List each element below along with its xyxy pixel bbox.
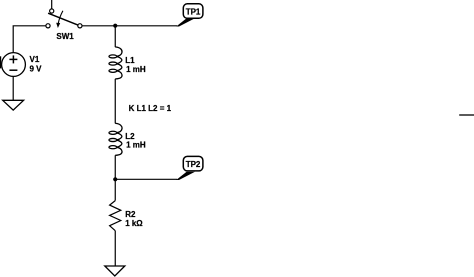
test point TP1 pointer wedge xyxy=(176,18,195,26)
switch SW1 top terminal circle xyxy=(50,9,54,13)
svg-text:R2: R2 xyxy=(125,210,136,219)
switch SW1 left terminal circle xyxy=(46,24,50,28)
wire L2 bottom to junction xyxy=(114,155,116,179)
junction node at TP2 tap xyxy=(113,177,117,181)
svg-text:1 kΩ: 1 kΩ xyxy=(125,219,143,228)
wire from SW1 right terminal to TP1 pointer xyxy=(82,25,177,27)
V1 plus sign xyxy=(9,58,17,60)
test point TP2 pointer wedge xyxy=(176,172,195,180)
wire L1 bottom to L2 top xyxy=(114,79,116,124)
test point TP2 flag xyxy=(183,156,203,171)
cropped wire stub at right edge xyxy=(459,114,474,116)
wire from V1 bottom to ground xyxy=(12,76,14,100)
voltage source V1 circle xyxy=(2,53,26,77)
wire junction to L1 top xyxy=(114,26,116,47)
svg-text:TP2: TP2 xyxy=(186,160,201,169)
svg-text:1 mH: 1 mH xyxy=(126,141,146,150)
svg-text:SW1: SW1 xyxy=(56,32,74,41)
ground under R2 xyxy=(105,266,125,276)
svg-text:1 mH: 1 mH xyxy=(126,65,146,74)
switch SW1 actuation arrow xyxy=(58,11,63,24)
wire junction to R2 top xyxy=(114,179,116,200)
ground under V1 xyxy=(3,100,24,110)
cropped element edge at left border xyxy=(0,56,1,68)
wire top feed into switch xyxy=(51,0,53,9)
V1 minus sign xyxy=(9,69,17,71)
svg-text:V1: V1 xyxy=(30,55,40,64)
inductor L1 xyxy=(109,47,122,79)
svg-text:L1: L1 xyxy=(125,56,135,65)
wire junction to TP2 pointer xyxy=(115,178,177,180)
inductor L2 xyxy=(109,123,122,155)
resistor R2 zigzag xyxy=(110,201,121,231)
test point TP1 flag xyxy=(183,4,203,18)
wire R2 bottom to ground xyxy=(114,231,116,266)
wire from SW1 left terminal to V1 top xyxy=(13,26,46,53)
switch SW1 right terminal circle xyxy=(78,24,82,28)
svg-text:9 V: 9 V xyxy=(30,65,43,74)
junction node at top of L1 xyxy=(113,24,117,28)
switch SW1 blade xyxy=(48,13,78,25)
svg-text:TP1: TP1 xyxy=(186,8,201,17)
svg-text:K L1 L2 = 1: K L1 L2 = 1 xyxy=(129,104,172,113)
